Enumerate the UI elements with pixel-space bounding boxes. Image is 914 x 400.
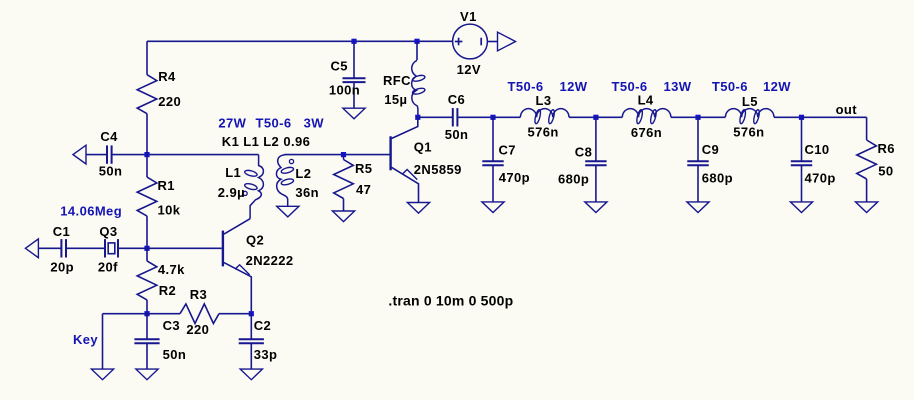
svg-text:L3: L3	[536, 93, 552, 108]
svg-text:Q1: Q1	[414, 139, 432, 154]
svg-text:20f: 20f	[98, 259, 118, 274]
svg-text:50: 50	[878, 164, 893, 179]
svg-text:T50-6: T50-6	[508, 79, 544, 94]
svg-text:4.7k: 4.7k	[158, 262, 185, 277]
svg-text:C8: C8	[575, 144, 592, 159]
svg-text:2N2222: 2N2222	[246, 253, 294, 268]
svg-text:12W: 12W	[763, 79, 791, 94]
svg-text:33p: 33p	[254, 347, 278, 362]
svg-text:576n: 576n	[733, 124, 764, 139]
svg-text:V1: V1	[460, 9, 477, 24]
svg-text:2.9µ: 2.9µ	[218, 185, 245, 200]
svg-text:L1: L1	[225, 165, 241, 180]
svg-text:C4: C4	[100, 129, 118, 144]
svg-text:20p: 20p	[50, 259, 74, 274]
svg-text:R3: R3	[190, 287, 207, 302]
svg-text:0.96: 0.96	[283, 134, 310, 149]
svg-text:680p: 680p	[702, 170, 733, 185]
svg-text:14.06Meg: 14.06Meg	[60, 203, 122, 218]
svg-text:47: 47	[356, 182, 371, 197]
svg-text:470p: 470p	[805, 170, 836, 185]
svg-text:T50-6: T50-6	[712, 79, 748, 94]
svg-text:R4: R4	[158, 69, 176, 84]
svg-text:C9: C9	[702, 142, 719, 157]
svg-text:C2: C2	[254, 318, 271, 333]
svg-text:T50-6: T50-6	[256, 116, 292, 131]
svg-text:C6: C6	[448, 92, 465, 107]
svg-text:680p: 680p	[558, 171, 589, 186]
svg-text:12W: 12W	[560, 79, 588, 94]
svg-text:R5: R5	[355, 161, 372, 176]
svg-text:470p: 470p	[499, 170, 530, 185]
svg-text:Q3: Q3	[99, 224, 117, 239]
svg-text:C1: C1	[53, 224, 70, 239]
svg-text:R1: R1	[158, 178, 175, 193]
svg-text:15µ: 15µ	[384, 92, 407, 107]
svg-text:L4: L4	[638, 93, 654, 108]
svg-text:10k: 10k	[158, 202, 181, 217]
svg-text:out: out	[836, 102, 858, 117]
svg-text:676n: 676n	[631, 125, 662, 140]
svg-text:576n: 576n	[528, 125, 559, 140]
svg-text:2N5859: 2N5859	[414, 162, 462, 177]
svg-text:50n: 50n	[163, 347, 187, 362]
svg-text:220: 220	[186, 322, 209, 337]
svg-text:50n: 50n	[99, 163, 123, 178]
svg-text:R6: R6	[878, 141, 895, 156]
svg-text:K1 L1 L2: K1 L1 L2	[222, 134, 279, 149]
svg-text:220: 220	[158, 94, 181, 109]
svg-text:R2: R2	[159, 283, 176, 298]
svg-text:Key: Key	[73, 332, 98, 347]
svg-text:C10: C10	[805, 142, 830, 157]
svg-text:C7: C7	[499, 143, 516, 158]
svg-text:L5: L5	[742, 94, 758, 109]
svg-text:13W: 13W	[664, 79, 692, 94]
svg-text:L2: L2	[295, 166, 311, 181]
svg-text:.tran 0 10m 0 500p: .tran 0 10m 0 500p	[388, 293, 513, 309]
svg-text:27W: 27W	[218, 116, 246, 131]
svg-text:36n: 36n	[295, 185, 319, 200]
svg-text:100n: 100n	[329, 83, 360, 98]
svg-text:C5: C5	[331, 59, 348, 74]
svg-text:C3: C3	[163, 318, 180, 333]
svg-text:3W: 3W	[304, 116, 325, 131]
svg-text:RFC: RFC	[383, 73, 411, 88]
svg-text:Q2: Q2	[246, 233, 264, 248]
svg-text:50n: 50n	[445, 127, 469, 142]
svg-text:T50-6: T50-6	[612, 79, 648, 94]
svg-text:12V: 12V	[457, 62, 481, 77]
